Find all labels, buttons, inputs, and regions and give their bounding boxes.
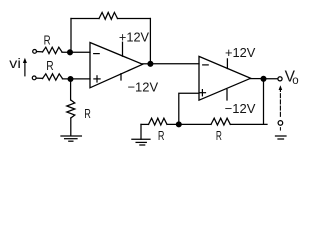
wire op-amp 1 output to node bbox=[143, 63, 151, 65]
wire left vertical from top rail down to inverting node bbox=[70, 19, 72, 53]
wire junction to op-amp 2 non-inverting input bbox=[179, 93, 199, 124]
resistor R (feedback, top) bbox=[99, 12, 118, 19]
op-amp U2 plus sign bbox=[199, 90, 205, 96]
op-amp U1 -12V supply pin bbox=[120, 74, 122, 80]
arrow up next to vi bbox=[24, 60, 26, 76]
wire resistor to op-amp 1 inverting input bbox=[62, 51, 90, 53]
dashed stub below lower terminal bbox=[279, 128, 281, 131]
svg-text:R: R bbox=[84, 106, 91, 121]
wire resistor to op-amp 1 non-inverting input bbox=[63, 78, 91, 80]
svg-text:−12V: −12V bbox=[128, 80, 159, 95]
wire from bottom input terminal to resistor bbox=[36, 77, 42, 79]
input terminal circle (top input) bbox=[33, 50, 37, 54]
node: non-inverting tap junction bbox=[176, 122, 181, 127]
svg-text:vi: vi bbox=[9, 55, 21, 71]
node: op-amp 2 output junction bbox=[261, 76, 266, 81]
op-amp U1 triangle bbox=[90, 43, 143, 88]
resistor R (vertical, to ground) bbox=[67, 100, 75, 118]
lower output terminal circle bbox=[278, 121, 283, 126]
op-amp U2 +12V supply pin bbox=[226, 59, 228, 69]
svg-text:o: o bbox=[292, 75, 298, 87]
resistor R (bottom right) bbox=[211, 118, 230, 125]
wire op-amp 1 output to op-amp 2 inverting input bbox=[150, 63, 199, 65]
wire ground to resistor bbox=[141, 123, 149, 125]
wire output node to output terminal bbox=[264, 78, 278, 80]
wire top rail right segment bbox=[118, 18, 151, 20]
svg-text:R: R bbox=[158, 128, 165, 143]
svg-text:R: R bbox=[46, 58, 53, 73]
wire op-amp 2 output to node bbox=[251, 78, 264, 80]
wire resistor to ground bbox=[70, 118, 72, 136]
wire bottom rail right segment bbox=[230, 123, 267, 125]
ground (below lower output terminal) bbox=[276, 136, 287, 139]
node: inverting input junction bbox=[68, 50, 73, 55]
wire right vertical from top rail down to op-amp 1 output node bbox=[149, 19, 151, 64]
wire from non-inverting node down to grounded resistor bbox=[70, 79, 72, 100]
op-amp U1 +12V supply pin bbox=[122, 42, 124, 56]
wire output node down to bottom rail bbox=[263, 79, 265, 125]
op-amp U2 triangle bbox=[199, 56, 251, 100]
op-amp U2 -12V supply pin bbox=[226, 90, 228, 101]
svg-text:−12V: −12V bbox=[225, 101, 256, 116]
ground (below vertical resistor) bbox=[61, 136, 81, 141]
op-amp U1 minus sign bbox=[94, 53, 100, 55]
node: non-inverting input junction bbox=[68, 77, 73, 82]
dashed arrow for Vo (pointing up) bbox=[279, 89, 281, 116]
output terminal circle Vo bbox=[278, 77, 282, 81]
resistor R (top input, series) bbox=[43, 47, 63, 53]
svg-text:+12V: +12V bbox=[119, 30, 150, 45]
svg-text:R: R bbox=[216, 128, 222, 143]
wire from top input terminal to resistor bbox=[37, 51, 43, 53]
resistor R (bottom left) bbox=[149, 118, 168, 125]
resistor R (bottom input, series) bbox=[43, 74, 63, 80]
wire between bottom resistors bbox=[167, 123, 211, 125]
node: op-amp 1 output junction bbox=[148, 61, 153, 66]
input terminal circle (bottom input) bbox=[32, 76, 36, 80]
op-amp U2 minus sign bbox=[203, 64, 209, 66]
svg-text:+12V: +12V bbox=[225, 45, 256, 60]
svg-text:R: R bbox=[44, 33, 51, 48]
wire top rail left segment bbox=[71, 18, 99, 20]
ground (left of bottom rail) bbox=[132, 124, 150, 145]
op-amp U1 plus sign bbox=[94, 76, 100, 82]
